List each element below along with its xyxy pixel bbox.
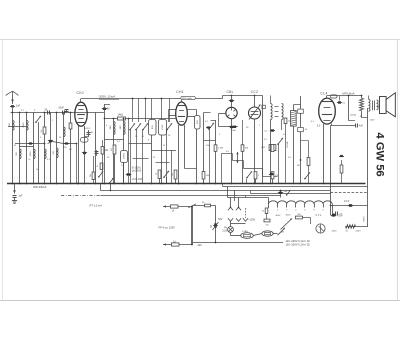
svg-text:1000: 1000 [30,151,32,157]
svg-text:17uF: 17uF [338,215,344,217]
svg-text:1A: 1A [173,240,176,243]
svg-text:EC4B: EC4B [287,141,289,147]
svg-text:1A: 1A [172,209,175,212]
svg-text:(at 190V): (at 190V) [132,169,142,172]
svg-text:S: S [210,225,212,229]
svg-text:1uF: 1uF [284,191,288,193]
svg-text:RT 1.0 mA: RT 1.0 mA [90,204,103,208]
svg-text:CBL: CBL [227,90,234,94]
svg-text:CC2: CC2 [251,90,259,94]
svg-text:4uF: 4uF [359,125,364,127]
svg-text:0.1M: 0.1M [218,148,223,150]
svg-text:0/50-0/52uF: 0/50-0/52uF [33,186,47,189]
svg-text:CL4: CL4 [320,92,327,96]
svg-text:NSF4: NSF4 [363,216,365,222]
svg-text:AC/DC: AC/DC [84,127,91,130]
svg-text:1M: 1M [105,150,108,152]
svg-text:185V 4mA: 185V 4mA [182,97,192,100]
svg-text:250V: 250V [356,230,362,232]
svg-text:110–220V 0,1A tr 32: 110–220V 0,1A tr 32 [286,239,311,243]
svg-text:~125V: ~125V [248,218,255,221]
svg-text:50k: 50k [90,174,92,177]
svg-text:FP 4 ca. 125V: FP 4 ca. 125V [159,225,176,229]
svg-text:50uF: 50uF [231,130,237,132]
svg-text:110–250V 0,1A tr 52: 110–250V 0,1A tr 52 [286,243,311,247]
svg-text:50V: 50V [218,218,223,221]
svg-text:50uF: 50uF [59,107,65,110]
svg-text:(0-125V): (0-125V) [132,167,141,169]
svg-text:CK1: CK1 [77,91,85,95]
svg-text:220V: 220V [332,230,338,232]
svg-text:1500: 1500 [162,124,164,130]
svg-text:1M: 1M [245,148,248,150]
svg-text:0.1A5: 0.1A5 [242,230,248,233]
svg-text:40mA: 40mA [350,113,356,116]
svg-text:CH1: CH1 [176,90,184,94]
svg-text:1uF: 1uF [16,105,21,108]
svg-text:4 GW 56: 4 GW 56 [374,133,386,177]
svg-text:M: M [14,145,16,147]
svg-text:400V: 400V [276,215,281,217]
svg-text:(1.25-140): (1.25-140) [132,179,143,181]
svg-text:10001: 10001 [124,152,126,159]
svg-text:205V, 12mA: 205V, 12mA [99,94,115,98]
svg-text:240: 240 [198,244,203,247]
svg-text:50k: 50k [172,173,174,176]
svg-text:14kΩ: 14kΩ [118,113,124,116]
svg-text:C V 1: C V 1 [316,215,322,217]
svg-text:450V: 450V [286,214,291,216]
svg-text:40-: 40- [91,132,94,134]
svg-text:0.2A: 0.2A [222,230,227,233]
svg-text:1uF: 1uF [19,196,24,198]
svg-text:120V: 120V [370,120,376,122]
svg-text:17uF: 17uF [344,201,350,203]
